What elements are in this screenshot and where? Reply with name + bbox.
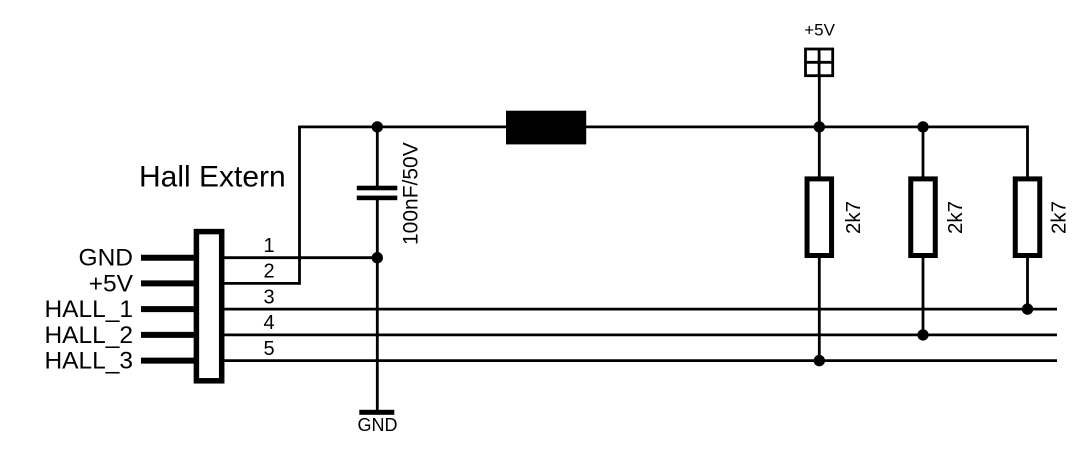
svg-text:HALL_2: HALL_2 xyxy=(44,322,133,349)
svg-text:HALL_1: HALL_1 xyxy=(44,296,133,323)
resistor R1 body xyxy=(807,179,832,256)
capacitor C1 plates xyxy=(357,186,398,201)
resistor R3 body xyxy=(1015,179,1040,256)
wire R1 bottom xyxy=(818,257,821,361)
wire R1 top xyxy=(818,127,821,178)
resistor R2 body xyxy=(911,179,936,256)
wire R3 bottom xyxy=(1026,257,1029,309)
pin 2 stub xyxy=(141,280,194,286)
wire pin4 HALL_2 bus xyxy=(224,333,1057,336)
wire pin2 vertical riser xyxy=(298,127,301,285)
svg-text:2: 2 xyxy=(263,261,274,283)
wire pin5 HALL_3 bus xyxy=(224,359,1057,362)
wire +5V symbol drop xyxy=(818,76,821,127)
junction top rail / capacitor xyxy=(372,121,383,132)
svg-text:5: 5 xyxy=(263,338,274,360)
svg-text:4: 4 xyxy=(263,312,274,334)
wire pin3 HALL_1 bus xyxy=(224,308,1057,311)
junction pin1 / capacitor lead xyxy=(372,252,383,263)
svg-text:100nF/50V: 100nF/50V xyxy=(400,142,423,245)
svg-text:+5V: +5V xyxy=(89,270,134,297)
svg-text:3: 3 xyxy=(263,286,274,308)
wire pin2 horizontal xyxy=(224,282,300,285)
svg-text:GND: GND xyxy=(358,415,398,435)
pin 1 stub xyxy=(141,255,194,261)
ferrite bead L1 xyxy=(506,111,586,145)
svg-text:+5V: +5V xyxy=(804,20,835,39)
junction HALL_2 / R2 xyxy=(917,329,928,340)
pin 3 stub xyxy=(141,306,194,312)
capacitor C1 bottom lead xyxy=(376,200,379,410)
capacitor C1 top lead xyxy=(376,127,379,187)
wire R2 bottom xyxy=(922,257,925,335)
pin 5 stub xyxy=(141,358,194,364)
svg-text:Hall Extern: Hall Extern xyxy=(139,161,286,194)
pin 4 stub xyxy=(141,332,194,338)
junction top rail / R1 and +5V xyxy=(814,121,825,132)
+5V power symbol xyxy=(806,49,833,76)
svg-text:2k7: 2k7 xyxy=(944,201,967,234)
ground symbol xyxy=(359,410,394,415)
svg-text:2k7: 2k7 xyxy=(842,201,865,234)
wire R2 top xyxy=(922,127,925,178)
junction top rail / R2 xyxy=(917,121,928,132)
junction HALL_3 / R1 xyxy=(814,355,825,366)
connector J1 body xyxy=(196,232,221,381)
svg-text:GND: GND xyxy=(79,245,133,272)
svg-text:1: 1 xyxy=(263,235,274,257)
svg-text:2k7: 2k7 xyxy=(1048,201,1071,234)
wire +5V top rail xyxy=(298,127,1027,178)
svg-text:HALL_3: HALL_3 xyxy=(44,348,133,375)
junction HALL_1 / R3 xyxy=(1022,303,1033,314)
wire pin1 to capacitor node xyxy=(224,256,377,259)
